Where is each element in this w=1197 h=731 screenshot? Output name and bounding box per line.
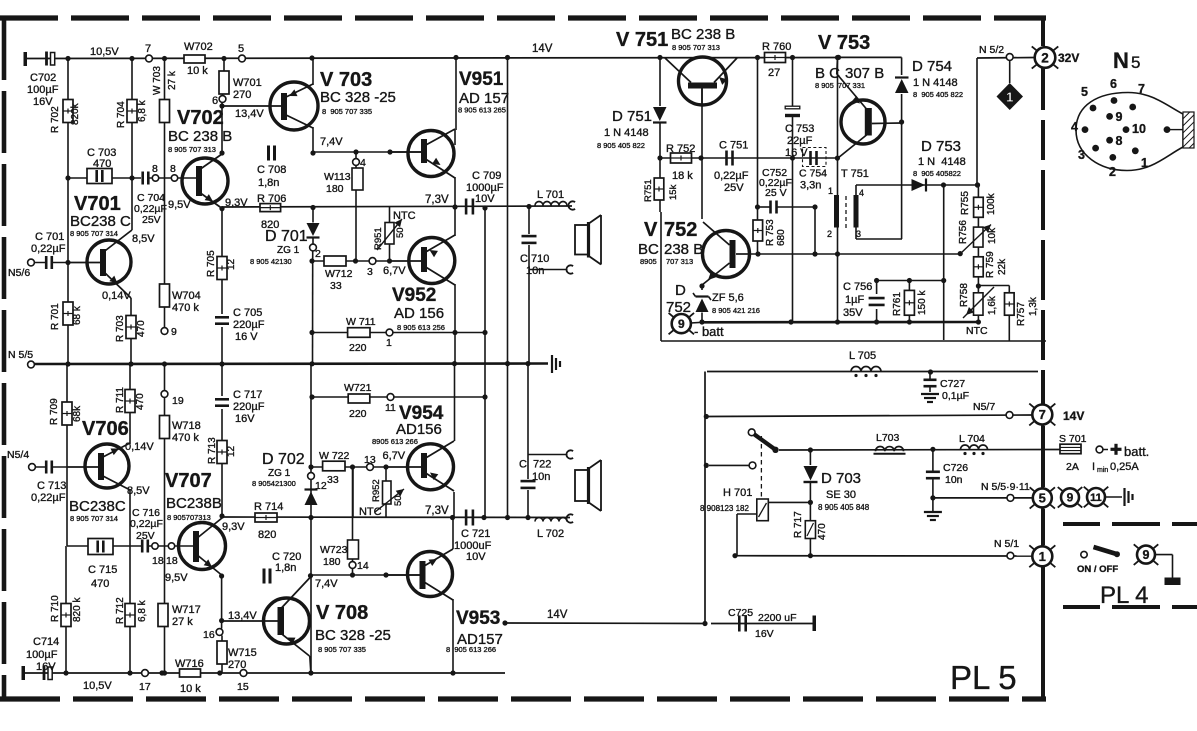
svg-text:0,22µF: 0,22µF <box>130 518 163 530</box>
svg-text:BC238B: BC238B <box>166 495 222 512</box>
svg-text:470 k: 470 k <box>172 432 199 444</box>
svg-text:10V: 10V <box>475 193 495 205</box>
svg-text:W712: W712 <box>325 268 353 280</box>
svg-text:7: 7 <box>1138 82 1145 96</box>
svg-text:100µF: 100µF <box>26 649 58 661</box>
svg-text:R756: R756 <box>958 220 969 244</box>
svg-text:V 708: V 708 <box>316 602 368 624</box>
svg-text:N 5/1: N 5/1 <box>994 538 1019 550</box>
svg-text:18: 18 <box>152 555 164 567</box>
svg-text:13,4V: 13,4V <box>235 108 264 120</box>
svg-text:10n: 10n <box>945 474 963 486</box>
svg-text:8,5V: 8,5V <box>132 233 155 245</box>
svg-text:0,14V: 0,14V <box>102 290 131 302</box>
svg-text:2A: 2A <box>1066 461 1079 473</box>
svg-text:R 706: R 706 <box>257 193 286 205</box>
svg-text:180: 180 <box>323 556 341 568</box>
svg-text:8 905 613 256: 8 905 613 256 <box>397 323 445 332</box>
svg-text:W721: W721 <box>344 382 372 394</box>
svg-text:1: 1 <box>1006 90 1013 105</box>
svg-text:W717: W717 <box>172 604 201 616</box>
svg-text:8905 613 266: 8905 613 266 <box>372 437 418 446</box>
svg-text:NTC: NTC <box>393 210 416 222</box>
svg-text:R 760: R 760 <box>762 41 791 53</box>
svg-text:470: 470 <box>135 393 146 410</box>
svg-text:9: 9 <box>1067 491 1074 505</box>
svg-text:5: 5 <box>1131 53 1140 72</box>
svg-text:1 N 4148: 1 N 4148 <box>918 156 966 168</box>
svg-text:C 715: C 715 <box>88 564 117 576</box>
svg-text:8: 8 <box>1116 134 1123 148</box>
svg-text:D 753: D 753 <box>921 138 961 155</box>
svg-text:100µF: 100µF <box>27 84 59 96</box>
svg-text:6,8 k: 6,8 k <box>137 99 148 122</box>
svg-text:1,8n: 1,8n <box>258 177 279 189</box>
svg-text:W718: W718 <box>172 420 201 432</box>
svg-text:2: 2 <box>827 229 832 239</box>
svg-text:R 714: R 714 <box>254 501 283 513</box>
svg-text:10: 10 <box>1132 122 1146 136</box>
svg-text:BC 328 -25: BC 328 -25 <box>320 89 396 106</box>
svg-text:R 702: R 702 <box>50 106 61 133</box>
svg-text:8 905 42130: 8 905 42130 <box>250 257 292 266</box>
svg-text:14V: 14V <box>547 609 568 621</box>
svg-text:C 708: C 708 <box>257 164 286 176</box>
svg-text:9: 9 <box>1116 110 1123 124</box>
svg-text:BC: BC <box>638 241 659 258</box>
svg-text:752: 752 <box>666 299 691 316</box>
svg-text:13,4V: 13,4V <box>228 610 257 622</box>
svg-text:16V: 16V <box>755 628 774 640</box>
svg-text:220: 220 <box>349 342 367 354</box>
svg-text:9: 9 <box>171 326 177 338</box>
svg-text:10k: 10k <box>987 227 998 244</box>
svg-text:5: 5 <box>1039 491 1046 506</box>
svg-text:L 701: L 701 <box>537 189 564 201</box>
svg-text:V702: V702 <box>177 107 224 129</box>
svg-text:V706: V706 <box>82 418 129 440</box>
svg-text:8 905707313: 8 905707313 <box>167 513 211 522</box>
svg-text:AD 156: AD 156 <box>394 305 444 322</box>
svg-text:25V: 25V <box>136 530 155 542</box>
svg-text:W715: W715 <box>228 647 257 659</box>
svg-text:V952: V952 <box>392 285 436 306</box>
svg-text:V 703: V 703 <box>320 69 372 91</box>
svg-text:BC238C: BC238C <box>69 498 126 515</box>
svg-text:W 722: W 722 <box>319 450 350 462</box>
svg-text:W 711: W 711 <box>346 316 376 328</box>
svg-text:C 721: C 721 <box>461 528 490 540</box>
svg-text:PL 5: PL 5 <box>950 659 1017 696</box>
svg-text:470: 470 <box>136 320 147 337</box>
svg-text:752: 752 <box>664 219 697 241</box>
svg-text:238 B: 238 B <box>664 241 703 258</box>
svg-text:27: 27 <box>768 67 780 79</box>
svg-text:W 703: W 703 <box>152 66 163 95</box>
svg-text:D 701: D 701 <box>265 228 308 245</box>
svg-text:14: 14 <box>357 560 369 572</box>
svg-text:10 k: 10 k <box>180 683 201 695</box>
svg-text:16V: 16V <box>33 96 53 108</box>
svg-text:1 N 4148: 1 N 4148 <box>913 77 958 89</box>
svg-text:BC238 C: BC238 C <box>70 213 131 230</box>
svg-text:1: 1 <box>386 337 392 349</box>
svg-text:R 717: R 717 <box>793 511 804 538</box>
svg-text:5: 5 <box>238 43 244 55</box>
svg-text:3: 3 <box>856 229 861 239</box>
svg-text:V951: V951 <box>459 69 504 90</box>
svg-text:8 905 613 265: 8 905 613 265 <box>458 106 506 115</box>
svg-text:BC 328 -25: BC 328 -25 <box>315 627 391 644</box>
svg-text:12: 12 <box>226 258 237 270</box>
svg-text:16 V: 16 V <box>785 147 808 159</box>
svg-text:H 701: H 701 <box>723 487 752 499</box>
svg-text:R 713: R 713 <box>207 437 218 464</box>
svg-text:ZG 1: ZG 1 <box>268 468 291 479</box>
svg-text:680: 680 <box>776 229 787 246</box>
svg-text:R761: R761 <box>892 292 903 316</box>
svg-text:9,3V: 9,3V <box>225 197 248 209</box>
svg-text:470: 470 <box>93 158 111 170</box>
svg-text:W704: W704 <box>172 290 201 302</box>
svg-text:33: 33 <box>330 280 342 292</box>
svg-text:1,8n: 1,8n <box>275 562 296 574</box>
svg-text:NTC: NTC <box>966 325 988 337</box>
svg-text:8 905 405822: 8 905 405822 <box>913 169 961 178</box>
svg-text:L 705: L 705 <box>849 350 876 362</box>
svg-text:R 710: R 710 <box>50 595 61 622</box>
svg-text:18 k: 18 k <box>672 170 693 182</box>
svg-text:15: 15 <box>237 681 249 693</box>
svg-text:820 k: 820 k <box>72 597 83 622</box>
svg-text:3,3n: 3,3n <box>800 180 821 192</box>
svg-text:W716: W716 <box>175 658 204 670</box>
svg-text:R751: R751 <box>643 179 654 202</box>
svg-text:50: 50 <box>395 227 406 238</box>
svg-text:C 756: C 756 <box>843 281 872 293</box>
svg-text:4: 4 <box>859 188 864 198</box>
svg-text:R758: R758 <box>959 283 970 307</box>
svg-text:D: D <box>675 282 686 299</box>
svg-text:68 k: 68 k <box>72 305 83 325</box>
svg-text:N 5/2: N 5/2 <box>979 44 1004 56</box>
svg-text:R 705: R 705 <box>206 250 217 277</box>
svg-text:1: 1 <box>828 186 833 196</box>
svg-text:13: 13 <box>364 454 376 466</box>
svg-text:BC 238 B: BC 238 B <box>671 26 735 43</box>
svg-text:6,7V: 6,7V <box>383 265 406 277</box>
svg-text:R951: R951 <box>373 227 384 250</box>
svg-text:1 N 4148: 1 N 4148 <box>604 127 649 139</box>
svg-text:9,5V: 9,5V <box>165 572 188 584</box>
svg-text:AD 157: AD 157 <box>459 90 509 107</box>
svg-text:220µF: 220µF <box>233 401 265 413</box>
svg-text:6: 6 <box>1110 77 1117 91</box>
svg-text:C 709: C 709 <box>472 170 501 182</box>
svg-text:0,25A: 0,25A <box>1110 461 1139 473</box>
svg-text:32V: 32V <box>1058 51 1079 65</box>
svg-text:8905: 8905 <box>640 257 657 266</box>
svg-text:27 k: 27 k <box>172 616 193 628</box>
svg-text:470: 470 <box>817 523 828 540</box>
svg-text:25 V: 25 V <box>765 187 787 199</box>
svg-text:12: 12 <box>315 480 327 492</box>
svg-text:R 753: R 753 <box>765 219 776 246</box>
svg-text:R755: R755 <box>960 191 971 215</box>
svg-text:7: 7 <box>1039 407 1046 422</box>
svg-text:820k: 820k <box>70 102 81 125</box>
svg-text:R757: R757 <box>1016 302 1027 326</box>
svg-text:8 908123 182: 8 908123 182 <box>700 504 749 513</box>
svg-text:C714: C714 <box>33 636 59 648</box>
svg-text:8 905 707 314: 8 905 707 314 <box>70 514 118 523</box>
svg-text:220: 220 <box>349 408 367 420</box>
svg-text:D 703: D 703 <box>821 470 861 487</box>
svg-text:9: 9 <box>678 317 685 331</box>
svg-text:batt.: batt. <box>1124 444 1149 459</box>
svg-text:22k: 22k <box>997 258 1008 275</box>
svg-text:5: 5 <box>1081 85 1088 99</box>
svg-text:4: 4 <box>1071 120 1078 134</box>
svg-text:R 712: R 712 <box>115 597 126 624</box>
svg-text:10n: 10n <box>532 471 550 483</box>
svg-text:W113: W113 <box>324 171 351 183</box>
svg-text:3: 3 <box>1078 148 1085 162</box>
svg-text:V953: V953 <box>456 608 500 629</box>
svg-text:1,6k: 1,6k <box>987 295 998 315</box>
svg-text:7,3V: 7,3V <box>425 505 449 517</box>
svg-text:270: 270 <box>228 659 246 671</box>
svg-text:33: 33 <box>327 474 339 486</box>
svg-text:0,22µF: 0,22µF <box>714 170 749 182</box>
svg-text:C702: C702 <box>30 72 56 84</box>
svg-text:NTC: NTC <box>359 506 382 518</box>
svg-text:N5/6: N5/6 <box>8 267 30 279</box>
svg-text:6: 6 <box>212 95 218 107</box>
svg-text:8: 8 <box>170 163 176 175</box>
svg-text:0,22µF: 0,22µF <box>31 243 66 255</box>
svg-text:16 V: 16 V <box>235 331 258 343</box>
svg-text:10,5V: 10,5V <box>83 680 112 692</box>
svg-text:S 701: S 701 <box>1059 433 1087 445</box>
svg-text:L 702: L 702 <box>537 528 564 540</box>
svg-text:C725: C725 <box>728 607 753 619</box>
svg-text:68k: 68k <box>72 405 83 422</box>
svg-text:R 711: R 711 <box>115 387 126 413</box>
svg-text:R 701: R 701 <box>50 303 61 330</box>
svg-text:C 701: C 701 <box>35 231 64 243</box>
svg-text:C727: C727 <box>940 378 965 390</box>
svg-text:7,4V: 7,4V <box>315 578 338 590</box>
svg-text:1µF: 1µF <box>845 294 864 306</box>
svg-text:11: 11 <box>385 402 396 414</box>
svg-text:10,5V: 10,5V <box>90 46 119 58</box>
svg-text:1,3k: 1,3k <box>1028 296 1039 316</box>
svg-text:9,3V: 9,3V <box>222 521 245 533</box>
svg-text:2: 2 <box>1041 50 1049 65</box>
svg-text:9: 9 <box>1143 548 1150 562</box>
svg-text:V701: V701 <box>74 193 121 215</box>
svg-text:C 753: C 753 <box>785 123 814 135</box>
svg-text:10V: 10V <box>466 551 486 563</box>
svg-text:7,3V: 7,3V <box>425 194 449 206</box>
svg-text:8,5V: 8,5V <box>127 485 150 497</box>
svg-text:C 705: C 705 <box>233 307 262 319</box>
svg-text:8 905 707 335: 8 905 707 335 <box>318 645 366 654</box>
svg-text:17: 17 <box>139 681 151 693</box>
svg-text:- batt: - batt <box>694 324 724 339</box>
svg-text:D 702: D 702 <box>262 451 305 468</box>
svg-text:8 905 405 848: 8 905 405 848 <box>818 503 870 512</box>
svg-text:ON / OFF: ON / OFF <box>1077 564 1118 575</box>
svg-text:8 905 421 216: 8 905 421 216 <box>712 306 760 315</box>
svg-text:V: V <box>644 219 658 241</box>
svg-text:B C: B C <box>815 65 840 82</box>
svg-text:L 704: L 704 <box>959 433 985 445</box>
svg-text:V 753: V 753 <box>818 32 870 54</box>
svg-text:707 313: 707 313 <box>666 257 693 266</box>
svg-text:0,1µF: 0,1µF <box>942 390 969 402</box>
svg-text:2: 2 <box>315 248 321 260</box>
svg-text:R952: R952 <box>371 479 382 502</box>
svg-text:C 717: C 717 <box>233 389 262 401</box>
svg-text:25V: 25V <box>142 214 161 226</box>
svg-text:25V: 25V <box>724 182 744 194</box>
svg-text:8 905 613 266: 8 905 613 266 <box>446 645 496 654</box>
svg-text:C 751: C 751 <box>719 140 748 152</box>
svg-text:220µF: 220µF <box>233 319 265 331</box>
svg-text:AD156: AD156 <box>396 421 442 438</box>
svg-text:8 905 707 335: 8 905 707 335 <box>322 107 372 116</box>
svg-text:22µF: 22µF <box>787 135 813 147</box>
svg-text:16: 16 <box>203 629 215 641</box>
svg-text:ZF 5,6: ZF 5,6 <box>712 292 744 304</box>
svg-text:W723: W723 <box>320 544 348 556</box>
svg-text:ZG 1: ZG 1 <box>277 245 300 256</box>
svg-text:50: 50 <box>393 495 404 506</box>
svg-text:BC 238 B: BC 238 B <box>168 128 232 145</box>
svg-text:W702: W702 <box>184 41 213 53</box>
svg-text:4: 4 <box>360 157 366 169</box>
svg-text:9,5V: 9,5V <box>168 199 191 211</box>
svg-text:C726: C726 <box>943 462 968 474</box>
svg-text:N: N <box>1113 48 1129 73</box>
svg-text:N5/7: N5/7 <box>973 401 995 413</box>
svg-text:150 k: 150 k <box>917 290 928 315</box>
svg-text:SE 30: SE 30 <box>826 489 856 501</box>
svg-text:min: min <box>1097 467 1108 474</box>
svg-text:C 710: C 710 <box>520 253 549 265</box>
svg-text:8 905421300: 8 905421300 <box>252 479 296 488</box>
svg-text:180: 180 <box>326 183 344 195</box>
svg-text:14V: 14V <box>1063 409 1084 423</box>
svg-text:11: 11 <box>1090 492 1102 504</box>
svg-text:N5/4: N5/4 <box>7 449 29 461</box>
svg-text:470 k: 470 k <box>172 302 199 314</box>
svg-text:V 751: V 751 <box>616 29 668 51</box>
svg-text:15k: 15k <box>668 184 679 200</box>
svg-text:10 k: 10 k <box>187 65 208 77</box>
svg-text:D 751: D 751 <box>612 108 652 125</box>
svg-text:18: 18 <box>166 555 178 567</box>
svg-text:V707: V707 <box>165 470 212 492</box>
svg-text:0,14V: 0,14V <box>125 441 154 453</box>
svg-text:R 703: R 703 <box>115 315 126 342</box>
svg-text:8: 8 <box>152 163 158 175</box>
svg-text:C 754: C 754 <box>799 168 827 180</box>
svg-text:470: 470 <box>91 578 109 590</box>
svg-text:N 5/5·9·11: N 5/5·9·11 <box>981 481 1030 493</box>
svg-text:R 709: R 709 <box>49 398 60 425</box>
svg-text:10n: 10n <box>526 265 544 277</box>
svg-text:16V: 16V <box>235 413 255 425</box>
svg-text:27 k: 27 k <box>167 70 178 90</box>
svg-text:8 905 405 822: 8 905 405 822 <box>597 141 645 150</box>
svg-text:19: 19 <box>172 395 184 407</box>
svg-text:270: 270 <box>233 89 251 101</box>
svg-text:C 722: C 722 <box>519 459 551 471</box>
svg-text:7: 7 <box>145 43 151 55</box>
svg-text:I: I <box>1092 461 1095 473</box>
svg-text:1: 1 <box>1141 156 1148 170</box>
svg-text:0,22µF: 0,22µF <box>31 492 66 504</box>
svg-text:8 905 707 313: 8 905 707 313 <box>168 145 216 154</box>
svg-text:R 704: R 704 <box>116 101 127 128</box>
svg-text:3: 3 <box>367 266 373 278</box>
svg-text:C 713: C 713 <box>37 480 66 492</box>
svg-text:8 905 707 331: 8 905 707 331 <box>815 81 865 90</box>
svg-text:8 905 707 313: 8 905 707 313 <box>672 43 720 52</box>
svg-text:820: 820 <box>258 529 276 541</box>
svg-text:1: 1 <box>1039 549 1046 564</box>
svg-text:W701: W701 <box>233 77 262 89</box>
svg-text:14V: 14V <box>532 43 553 55</box>
svg-text:D 754: D 754 <box>912 58 952 75</box>
svg-text:6,7V: 6,7V <box>383 450 406 462</box>
svg-text:8 905 405 822: 8 905 405 822 <box>913 90 963 99</box>
svg-text:T 751: T 751 <box>841 168 869 180</box>
svg-text:L703: L703 <box>876 432 900 444</box>
svg-text:6,8 k: 6,8 k <box>137 599 148 622</box>
svg-text:16V: 16V <box>36 661 56 673</box>
svg-text:8 905 707 314: 8 905 707 314 <box>70 229 118 238</box>
svg-text:PL 4: PL 4 <box>1100 582 1148 609</box>
svg-text:7,4V: 7,4V <box>320 136 343 148</box>
svg-text:N 5/5: N 5/5 <box>8 349 33 361</box>
svg-text:12: 12 <box>226 445 237 457</box>
svg-text:2: 2 <box>1109 165 1116 179</box>
svg-text:R 752: R 752 <box>666 143 695 155</box>
svg-text:100k: 100k <box>986 192 997 215</box>
svg-text:35V: 35V <box>843 307 863 319</box>
svg-text:2200 uF: 2200 uF <box>758 612 797 624</box>
svg-text:R 759: R 759 <box>985 251 996 278</box>
svg-text:307 B: 307 B <box>845 65 884 82</box>
